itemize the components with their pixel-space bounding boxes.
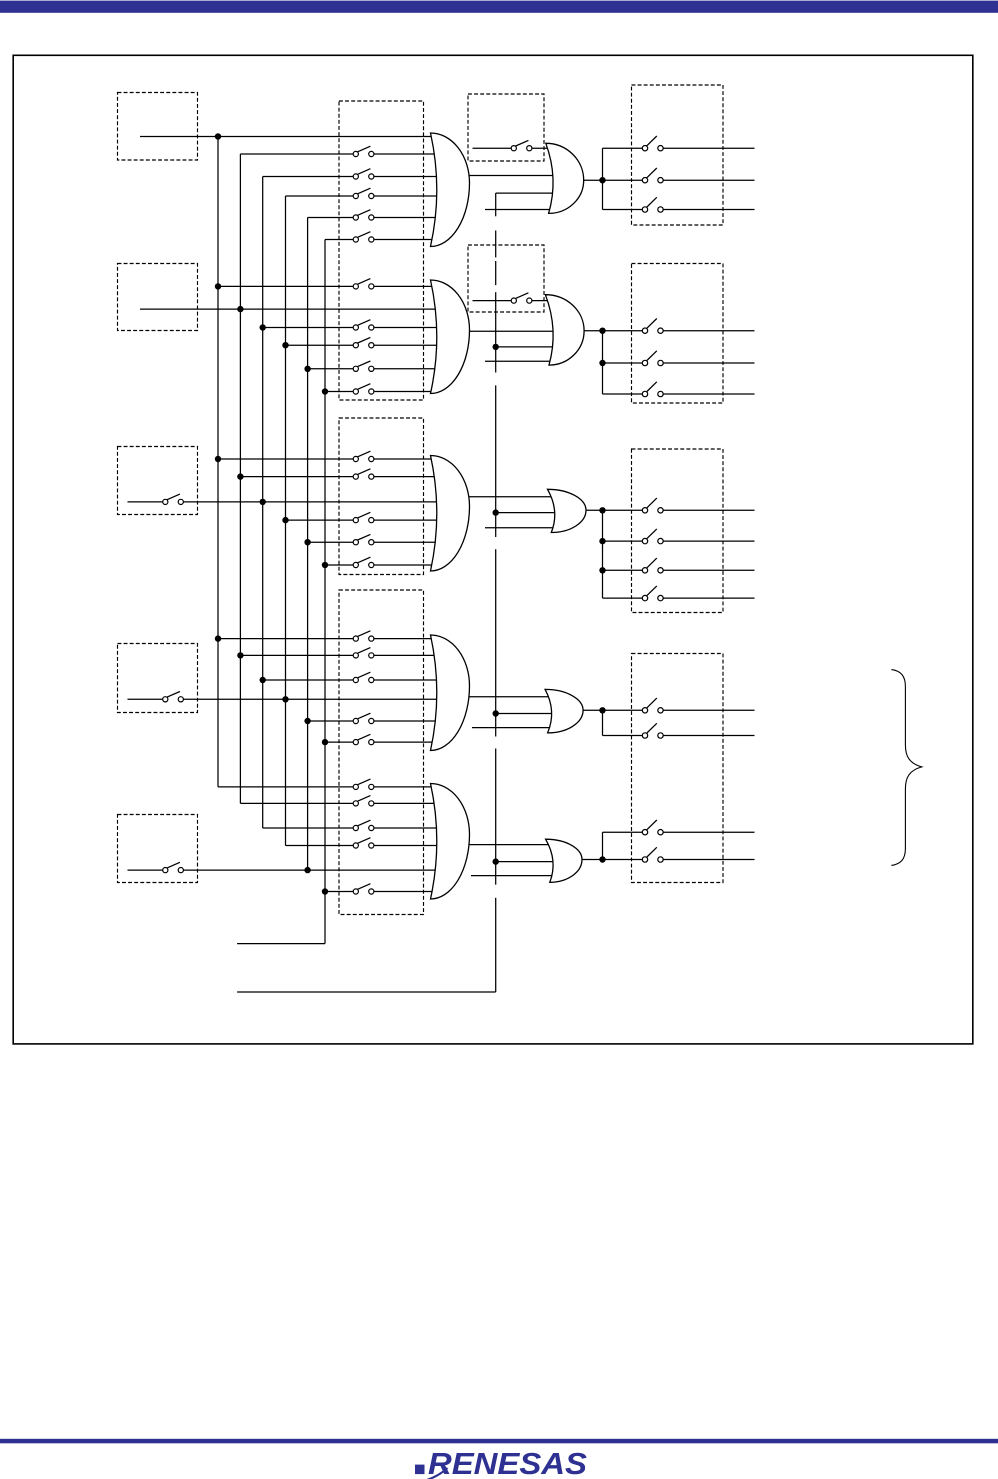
svg-text:RENESAS: RENESAS — [428, 1446, 587, 1479]
